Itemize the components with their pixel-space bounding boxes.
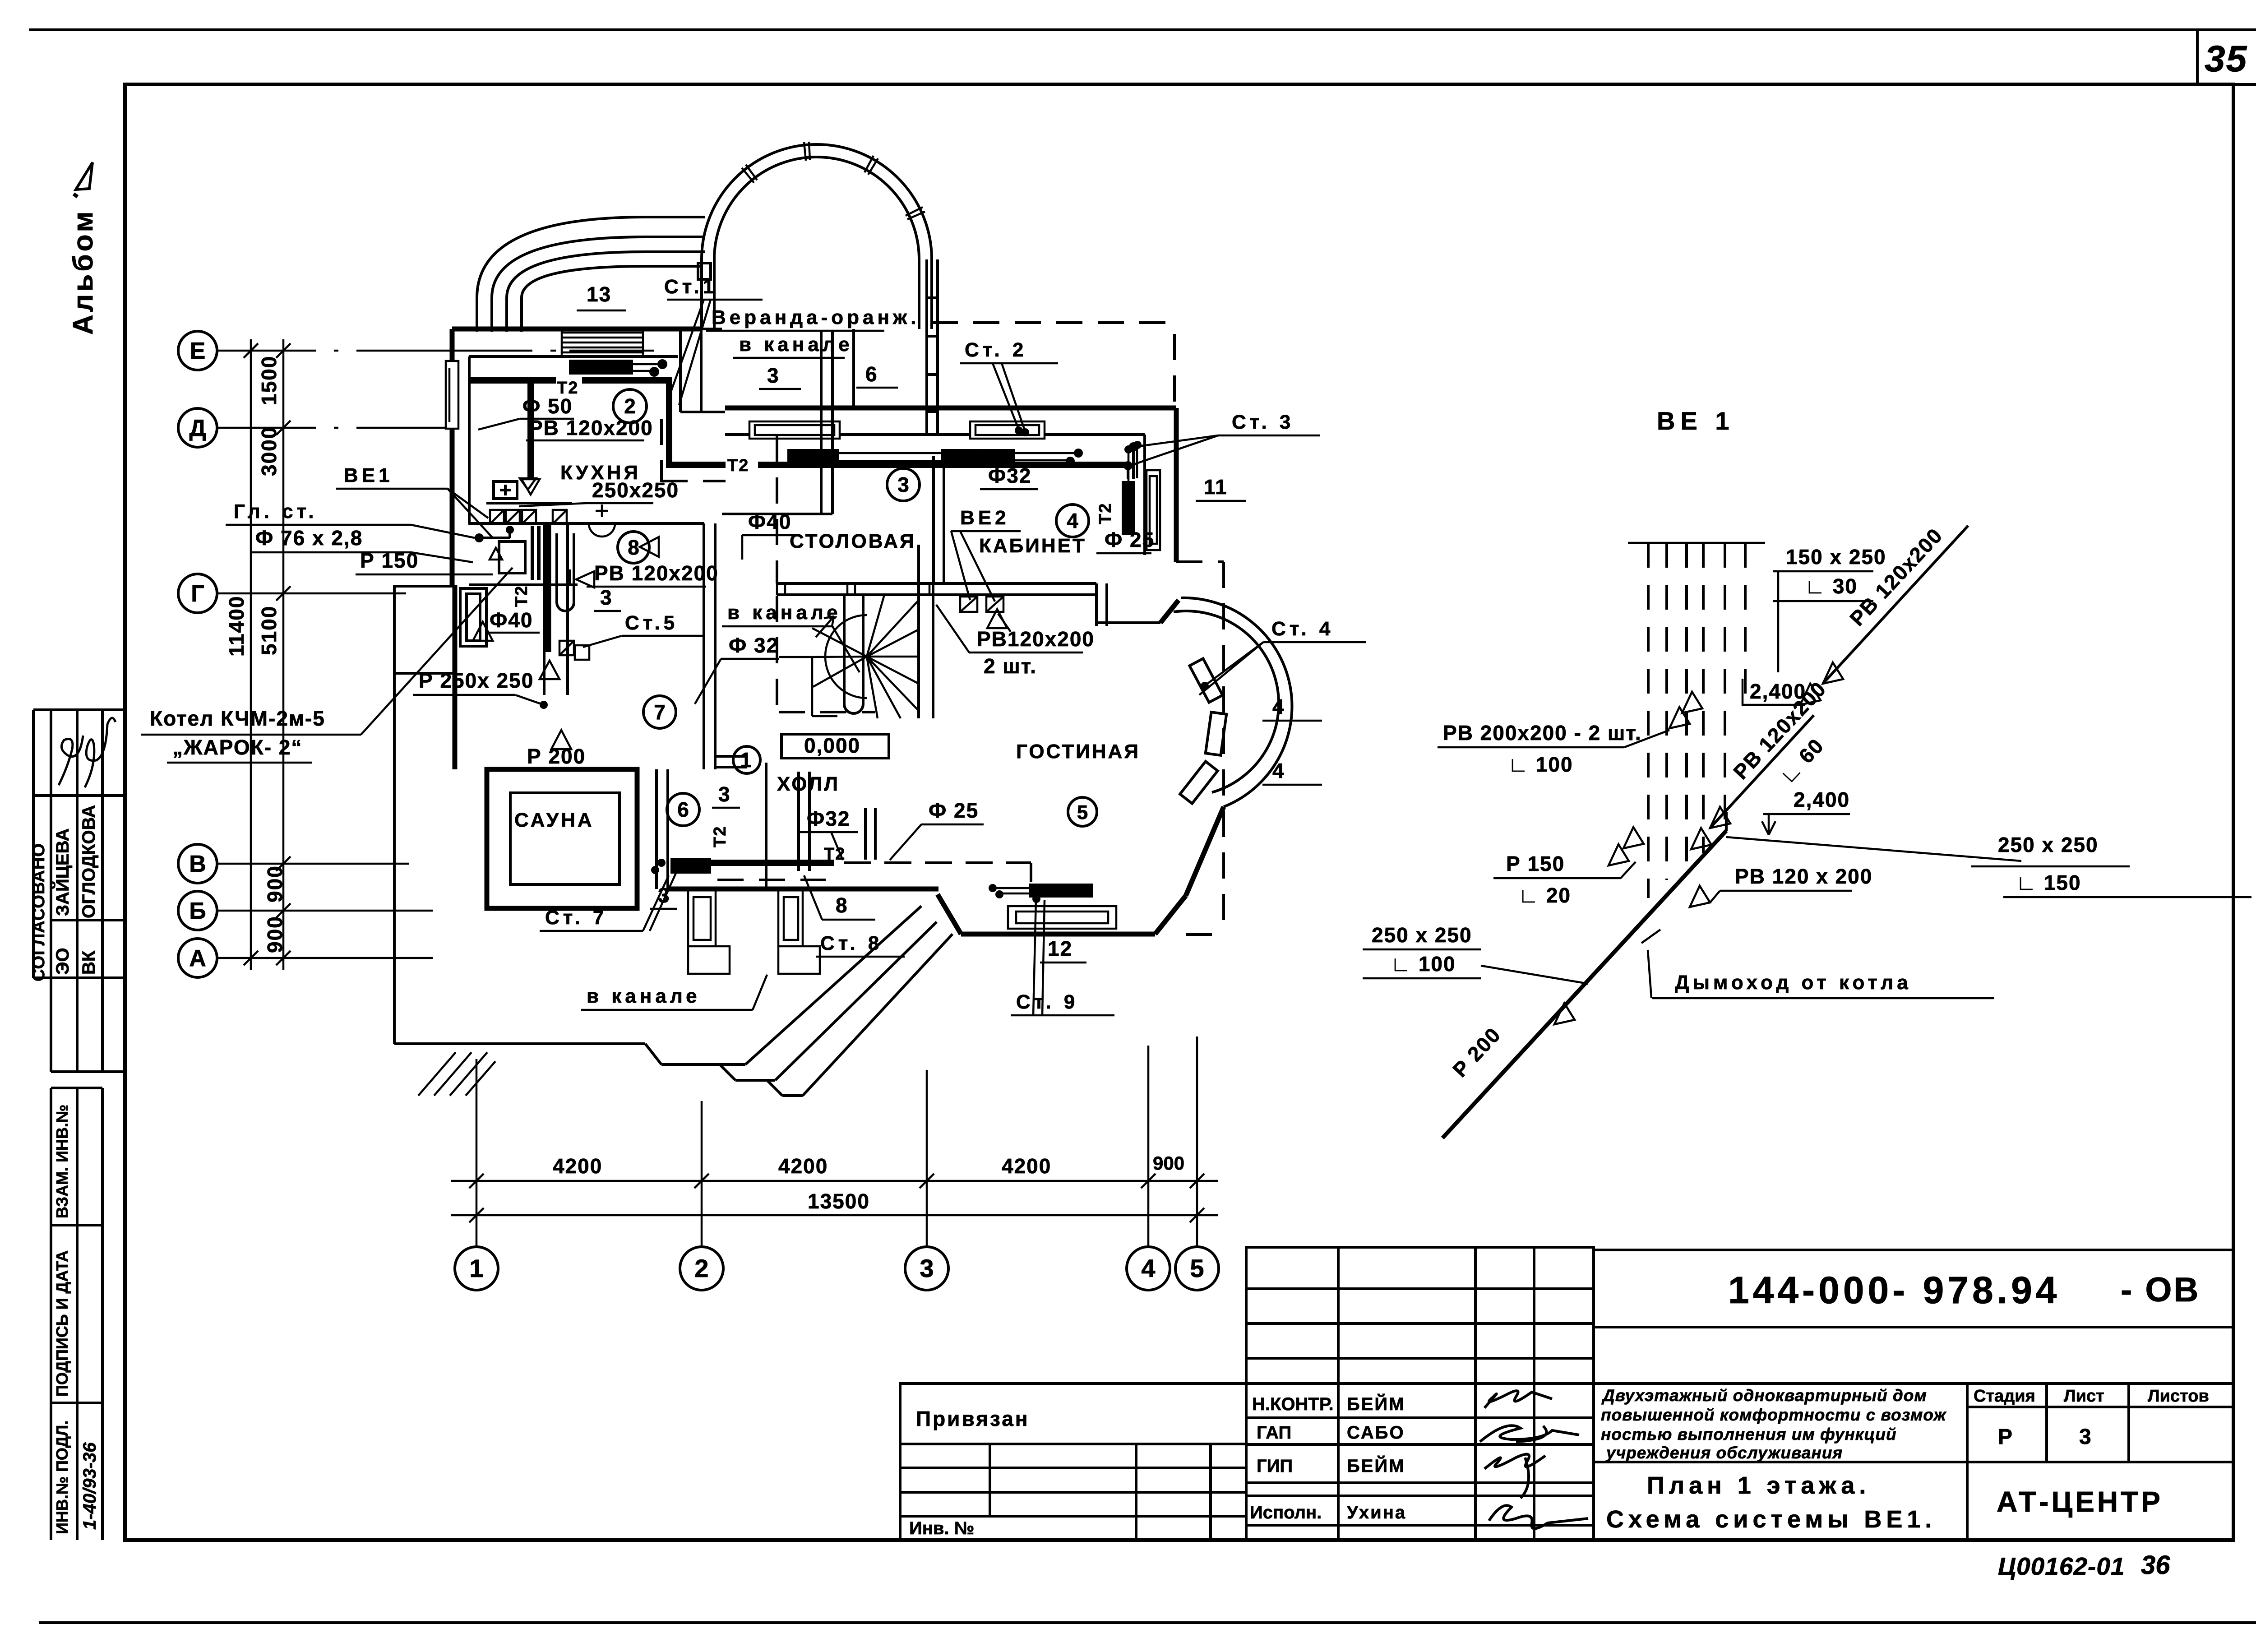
svg-text:Ц00162-01: Ц00162-01 [1998, 1552, 2125, 1580]
bottom axis circle 3 [905, 1247, 948, 1290]
label Ф32 hall [695, 634, 779, 704]
sauna-hall wall [656, 769, 668, 889]
album handwritten 1 [76, 162, 92, 190]
BE1 middle diagonal [1710, 715, 1814, 828]
svg-text:3: 3 [920, 1254, 934, 1282]
stair winder rays [812, 595, 919, 718]
label в канале bottom [581, 975, 767, 1010]
svg-text:Б: Б [189, 898, 206, 924]
label 4 upper [1262, 695, 1322, 721]
svg-text:Дымоход от котла: Дымоход от котла [1675, 972, 1912, 994]
boiler body [499, 541, 525, 573]
svg-text:Гл. ст.: Гл. ст. [234, 500, 318, 523]
svg-text:повышенной комфортности с возм: повышенной комфортности с возмож [1601, 1406, 1946, 1424]
boiler room bottom wall [469, 583, 578, 586]
sauna outer walls [487, 769, 637, 908]
svg-text:ВЗАМ. ИНВ.№: ВЗАМ. ИНВ.№ [53, 1105, 71, 1218]
svg-text:2,400: 2,400 [1794, 788, 1850, 811]
svg-text:2,400: 2,400 [1750, 680, 1806, 703]
left axis circle Б [178, 891, 217, 930]
label 8 / Ст.8 [804, 875, 905, 957]
radiator kitchen link line [633, 364, 659, 371]
arch foot pier block [698, 263, 711, 279]
svg-text:РВ 120х200: РВ 120х200 [594, 561, 719, 585]
wall left kitchen [450, 329, 455, 585]
svg-text:Ухина: Ухина [1347, 1503, 1406, 1522]
svg-text:∟ 150: ∟ 150 [2016, 871, 2081, 894]
svg-text:Ст.5: Ст.5 [625, 612, 678, 634]
label Ф25 bottom [890, 799, 984, 860]
svg-text:11400: 11400 [225, 596, 248, 657]
svg-text:5100: 5100 [257, 606, 281, 655]
page top border line [29, 30, 2256, 84]
T2 duct hall bottom [708, 860, 834, 866]
left dimension line inner [276, 339, 291, 970]
svg-text:Т2: Т2 [727, 456, 749, 475]
svg-text:2: 2 [624, 394, 636, 418]
svg-text:12: 12 [1048, 937, 1073, 960]
porch step hatch [418, 1052, 495, 1096]
svg-text:А: А [189, 945, 206, 972]
stair tongue [844, 596, 863, 713]
svg-text:Н.КОНТР.: Н.КОНТР. [1252, 1394, 1334, 1414]
svg-text:3: 3 [2079, 1425, 2091, 1449]
louver window 13 [562, 329, 643, 355]
svg-text:8: 8 [628, 536, 639, 559]
hall window B [778, 889, 820, 974]
label Дымоход от котла [1652, 972, 1994, 998]
radiator hall dots [657, 859, 666, 867]
label 250х250 kitchen [519, 478, 679, 506]
svg-text:в канале: в канале [587, 985, 701, 1007]
left axis circle В [178, 844, 217, 883]
radiator cabinet stem [1128, 447, 1137, 481]
bay radiator segments [1180, 658, 1226, 803]
radiator living dots [989, 884, 997, 892]
svg-text:13: 13 [587, 282, 611, 306]
axis line В [217, 863, 409, 865]
T2 duct kitchen top [471, 380, 1130, 465]
svg-text:900: 900 [263, 865, 287, 902]
left axis circle Д [178, 408, 217, 447]
cabinet-dining divider [934, 456, 944, 584]
label 250x250 L150 [1971, 833, 2251, 897]
wall top right of arch outer [725, 406, 1176, 411]
kitchen inner walls [468, 356, 704, 523]
left axis circle Г [178, 574, 217, 613]
svg-text:3: 3 [767, 364, 780, 387]
svg-text:ГАП: ГАП [1257, 1423, 1291, 1443]
svg-text:250 х 250: 250 х 250 [1998, 833, 2099, 856]
dining window 2 [970, 421, 1045, 439]
label Ф50 [478, 394, 574, 430]
svg-text:ВЕ1: ВЕ1 [344, 464, 393, 486]
label Ф40 dining [742, 510, 798, 560]
radiator dining link [839, 453, 1078, 461]
triangle cabinet PB120 [987, 609, 1007, 628]
svg-text:в канале: в канале [727, 602, 841, 624]
living room SW chamfer [938, 894, 961, 934]
window left wall [446, 361, 458, 429]
circled 5 [1068, 797, 1097, 826]
svg-text:Р 150: Р 150 [1506, 852, 1565, 875]
dashed canal kitchen vertical [661, 419, 726, 482]
svg-text:Ф 32: Ф 32 [729, 634, 779, 657]
hall bottom wall [668, 887, 938, 892]
veranda right wall [927, 259, 938, 436]
svg-text:6: 6 [865, 362, 878, 386]
svg-text:144-000- 978.94: 144-000- 978.94 [1728, 1269, 2061, 1311]
label Ф40 left [485, 608, 540, 633]
svg-text:ностью выполнения им функций: ностью выполнения им функций [1601, 1425, 1897, 1444]
radiator link dots right [1074, 449, 1083, 458]
project description italic lines [1601, 1386, 1946, 1462]
elevation box 0.000 [781, 734, 889, 758]
svg-text:Ф40: Ф40 [748, 510, 791, 533]
svg-text:4200: 4200 [778, 1154, 828, 1178]
sheet number cell divider [2196, 30, 2199, 84]
triangle boiler BE1 [473, 622, 493, 641]
label Котел КЧМ-2м-5 [141, 568, 513, 763]
dashed canal hall horizontal [779, 711, 875, 713]
svg-text:4200: 4200 [1002, 1154, 1051, 1178]
dining window 1 [749, 421, 840, 439]
terrace steps [645, 1044, 803, 1096]
svg-text:Ф 25: Ф 25 [1105, 528, 1155, 551]
svg-text:1: 1 [469, 1254, 483, 1282]
left dimension line outer 11400 [244, 339, 258, 970]
svg-text:Ф40: Ф40 [490, 608, 533, 632]
label ВЕ1 plan with leaders [336, 464, 493, 538]
bay dashed contour [1176, 562, 1224, 935]
veranda arch inner [714, 157, 919, 259]
svg-text:6: 6 [677, 798, 689, 821]
band end caps [777, 583, 929, 595]
svg-text:Ст. 7: Ст. 7 [545, 907, 607, 929]
svg-text:Стадия: Стадия [1974, 1387, 2035, 1406]
svg-text:900: 900 [263, 916, 287, 953]
arch right pier [919, 259, 932, 329]
vent boxes cabinet [960, 597, 1003, 612]
veranda opening pier [680, 329, 725, 412]
cabinet window right [1146, 470, 1160, 550]
dashed overhang top right [932, 323, 1174, 402]
bottom axis circle 4 [1127, 1247, 1170, 1290]
label в канале hall [722, 602, 860, 672]
terrace left edge [394, 673, 645, 1044]
dining-cabinet south band [777, 583, 1160, 626]
pipe dots boiler [475, 533, 484, 542]
svg-text:САУНА: САУНА [514, 809, 594, 831]
duct curves to veranda [477, 217, 705, 332]
label Ф76х2.8 [251, 526, 473, 562]
svg-text:Ф 50: Ф 50 [522, 394, 573, 418]
left axis circle А [178, 939, 217, 977]
dining top wall inner [725, 433, 1145, 436]
riser bundle top arrows [1669, 692, 1702, 728]
stair right rail [919, 545, 933, 718]
axis line Б [217, 910, 433, 912]
label 250x250 L100 [1363, 923, 1588, 984]
hall duct verticals [865, 808, 875, 860]
diagonal arrows on main duct [1554, 1003, 1575, 1024]
axis line А [217, 957, 433, 959]
svg-text:Лист: Лист [2064, 1387, 2104, 1406]
svg-text:ПОДПИСЬ И ДАТА: ПОДПИСЬ И ДАТА [53, 1250, 71, 1397]
left axis circle Е [178, 331, 217, 370]
svg-text:Ст.1: Ст.1 [664, 276, 717, 298]
svg-text:11: 11 [1204, 475, 1228, 499]
svg-text:Т2: Т2 [711, 826, 730, 847]
svg-text:Д: Д [189, 415, 206, 441]
label 3 bottom [650, 884, 677, 909]
stack cluster st5 [559, 641, 589, 660]
circled 3 [887, 468, 920, 501]
terrace diagonals [745, 906, 952, 1096]
living room bottom wall [961, 932, 1155, 937]
thick riser P250x250 [545, 524, 551, 652]
T2 duct kitchen left riser [527, 380, 534, 477]
label Ст.1 with leaders [664, 276, 763, 405]
svg-text:∟ 30: ∟ 30 [1805, 574, 1858, 598]
radiator cabinet vertical [1122, 481, 1135, 535]
svg-text:Ст. 4: Ст. 4 [1271, 618, 1334, 640]
title block: main right part frame [1594, 1250, 2233, 1540]
radiator dining left [787, 449, 839, 466]
svg-text:Ст. 2: Ст. 2 [965, 339, 1027, 361]
label Ф25 cabinet [1096, 528, 1155, 553]
svg-text:СТОЛОВАЯ: СТОЛОВАЯ [790, 530, 916, 552]
wall top kitchen [452, 327, 703, 332]
svg-text:Ф 25: Ф 25 [929, 799, 979, 822]
bottom dimension line 4200s [451, 1174, 1218, 1188]
svg-text:4200: 4200 [553, 1154, 602, 1178]
svg-text:Веранда-оранж.: Веранда-оранж. [712, 306, 920, 329]
svg-text:Ст. 3: Ст. 3 [1232, 411, 1294, 433]
dashed canal stairs vertical [776, 436, 778, 718]
dashed duct between hall windows [717, 879, 826, 881]
svg-text:ИНВ.№ ПОДЛ.: ИНВ.№ ПОДЛ. [53, 1421, 71, 1534]
svg-text:4: 4 [1272, 695, 1285, 718]
U-flue pipe [557, 533, 574, 611]
label Ст.3 with leaders [1123, 411, 1320, 479]
BE1 horizontal leader to 250x250 [1726, 837, 2021, 861]
bottom axis circle 1 [455, 1247, 498, 1290]
shaft vertical lines [544, 524, 568, 695]
living room bottom window [1008, 906, 1116, 929]
wc partition [715, 756, 809, 871]
label ВЕ2 with leaders [951, 507, 1021, 602]
title block: privyazan table [900, 1384, 1246, 1540]
dymohod junction tick [1641, 930, 1660, 998]
svg-text:3000: 3000 [257, 426, 281, 476]
svg-text:Ф 76 х 2,8: Ф 76 х 2,8 [255, 526, 363, 550]
label PB120x200 L60 rotated middle [1729, 677, 1831, 788]
label РВ120х200 second [570, 561, 719, 588]
svg-text:Котел КЧМ-2м-5: Котел КЧМ-2м-5 [150, 707, 325, 730]
svg-text:Ф32: Ф32 [807, 807, 850, 830]
dining-left double wall [722, 330, 832, 514]
svg-text:36: 36 [2141, 1550, 2170, 1580]
svg-text:Двухэтажный одноквартирный дом: Двухэтажный одноквартирный дом [1601, 1386, 1927, 1405]
hall east wall [765, 763, 767, 887]
BE1 main diagonal duct [1442, 831, 1726, 1138]
label Ст.5 with leader [583, 612, 704, 647]
svg-text:13500: 13500 [808, 1189, 870, 1213]
svg-text:3: 3 [600, 586, 613, 609]
radiator living link [993, 888, 1029, 893]
axis line Е [217, 350, 654, 352]
label Ст.9 with leaders [1011, 895, 1114, 1015]
label 6 top [856, 362, 898, 388]
svg-text:РВ 200х200 - 2 шт.: РВ 200х200 - 2 шт. [1443, 721, 1642, 745]
hall window A [688, 889, 730, 974]
circled 2 [613, 389, 647, 423]
bottom axis circle 5 [1175, 1247, 1219, 1290]
sink symbol kitchen [589, 504, 615, 537]
veranda arch outer [702, 144, 932, 259]
svg-text:ЭО: ЭО [53, 948, 73, 975]
label 3 small kitchen [594, 586, 621, 611]
level mark 2.400 lower [1762, 788, 1850, 835]
svg-text:5: 5 [1077, 801, 1088, 824]
svg-text:Р 200: Р 200 [527, 745, 586, 768]
label 4 lower [1262, 759, 1322, 785]
title block: approval grid [1246, 1247, 1594, 1540]
label PB120x200 horizontal [1690, 865, 1872, 907]
bottom axis verticals [476, 1037, 1197, 1247]
circled 7 [643, 696, 676, 728]
svg-text:∟ 20: ∟ 20 [1518, 884, 1571, 907]
axis line Г [217, 592, 406, 595]
arch segment ticks [742, 142, 925, 219]
radiator link dots [657, 359, 667, 369]
svg-text:2: 2 [694, 1254, 708, 1282]
signature sabo [1480, 1425, 1579, 1442]
label 3 mid [712, 782, 740, 808]
svg-text:Т2: Т2 [512, 585, 531, 607]
radiator hall bottom [670, 858, 711, 874]
sauna inner walls [510, 793, 619, 884]
svg-text:АТ-ЦЕНТР: АТ-ЦЕНТР [1997, 1485, 2163, 1518]
radiator stem dots [1124, 445, 1133, 453]
veranda mid glazing line [852, 329, 855, 408]
radiator kitchen top [569, 360, 633, 375]
svg-text:∟ 100: ∟ 100 [1508, 753, 1573, 776]
svg-text:Альбом: Альбом [68, 209, 99, 335]
svg-text:1500: 1500 [257, 356, 281, 405]
svg-text:Т2: Т2 [1096, 503, 1115, 524]
signature beim 2 [1484, 1454, 1545, 1498]
signature squiggle 2 [85, 718, 116, 787]
label РВ120х200 2шт cabinet [936, 605, 1095, 678]
label Ст.4 with leader [1199, 618, 1366, 695]
stair north arrow [816, 616, 834, 637]
signature squiggle 1 [59, 736, 83, 785]
svg-text:4: 4 [1067, 509, 1078, 532]
label 12 [1040, 937, 1086, 963]
stair winder semicircle [825, 615, 867, 698]
triangle sauna P200 [551, 730, 571, 749]
signature beim 1 [1484, 1391, 1552, 1408]
boiler porch [394, 586, 486, 673]
svg-text:ГИП: ГИП [1257, 1456, 1293, 1476]
arch left pier [695, 259, 722, 329]
right wall cabinet inner [1143, 435, 1146, 555]
electro box with plus [494, 481, 517, 499]
svg-text:3: 3 [658, 884, 670, 907]
right wall cabinet outer [1174, 408, 1179, 562]
stair left wedge boundary [779, 657, 837, 716]
triangle kitchen PB120 left-point [640, 537, 659, 557]
svg-text:ВЕ2: ВЕ2 [960, 507, 1010, 529]
small triangle near electro box [520, 478, 536, 490]
label Р150 [356, 549, 493, 574]
svg-text:Г: Г [191, 581, 204, 607]
svg-text:3: 3 [897, 473, 909, 496]
label PB200x200 2sht [1438, 721, 1669, 776]
T2 riser outlet triangle [522, 479, 540, 495]
boiler flue x-boxes [490, 510, 567, 524]
svg-text:Т2: Т2 [824, 845, 846, 864]
svg-text:в канале: в канале [739, 333, 853, 356]
triangle under riser [540, 661, 559, 679]
svg-text:СОГЛАСОВАНО: СОГЛАСОВАНО [29, 843, 48, 981]
circled 4 [1056, 504, 1089, 537]
svg-text:РВ 120х200: РВ 120х200 [529, 416, 653, 440]
svg-text:Р 250х 250: Р 250х 250 [419, 669, 534, 692]
svg-text:250 х 250: 250 х 250 [1372, 923, 1472, 947]
svg-text:Ст. 8: Ст. 8 [820, 932, 883, 954]
label Р250х250 [413, 669, 548, 709]
svg-text:0,000: 0,000 [804, 734, 860, 757]
svg-text:ХОЛЛ: ХОЛЛ [777, 773, 840, 795]
label РВ120х200 kitchen [526, 416, 653, 440]
svg-text:250х250: 250х250 [592, 478, 679, 502]
radiator dining right [941, 449, 1015, 466]
svg-text:Р 150: Р 150 [360, 549, 419, 572]
label Ф32 bottom [800, 807, 858, 860]
svg-text:БЕЙМ: БЕЙМ [1347, 1393, 1405, 1414]
svg-text:Е: Е [190, 338, 206, 364]
signature ukhina [1489, 1505, 1588, 1528]
svg-text:РВ120х200: РВ120х200 [977, 627, 1095, 651]
svg-text:Схема системы ВЕ1.: Схема системы ВЕ1. [1606, 1506, 1936, 1533]
svg-text:БЕЙМ: БЕЙМ [1347, 1455, 1405, 1476]
svg-text:- ОВ: - ОВ [2121, 1271, 2200, 1309]
svg-text:Привязан: Привязан [916, 1407, 1030, 1430]
svg-text:РВ 120 х 200: РВ 120 х 200 [1735, 865, 1872, 888]
svg-text:В: В [189, 851, 206, 877]
svg-text:150 х 250: 150 х 250 [1786, 545, 1886, 569]
svg-text:Инв. №: Инв. № [909, 1518, 974, 1538]
BE1 top header line [1628, 542, 1765, 544]
label Веранда-оранж. [706, 306, 920, 358]
T2 vertical double boiler [532, 526, 539, 580]
svg-text:Т2: Т2 [965, 446, 986, 465]
BE1 middle diagonal arrows [1691, 807, 1730, 849]
svg-text:4: 4 [1141, 1254, 1155, 1282]
svg-text:ОГЛОДКОВА: ОГЛОДКОВА [79, 805, 99, 918]
svg-text:учреждения обслуживания: учреждения обслуживания [1605, 1444, 1843, 1462]
bottom dimension line 13500 [451, 1208, 1218, 1222]
svg-text:1: 1 [740, 748, 752, 772]
svg-text:„ЖАРОК- 2“: „ЖАРОК- 2“ [172, 736, 302, 759]
svg-text:ВК: ВК [79, 950, 99, 975]
T2 duct bottom dashed continuation [844, 863, 1031, 882]
svg-text:∟ 100: ∟ 100 [1391, 952, 1456, 976]
lower stamp block [51, 1088, 102, 1540]
